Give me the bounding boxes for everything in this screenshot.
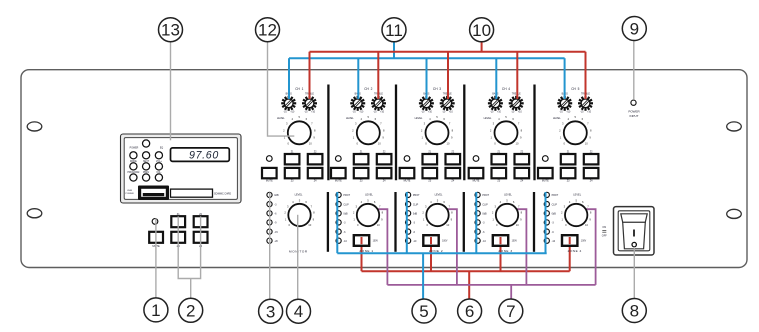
media module button row3 col3: [155, 174, 162, 181]
svg-text:MUTE: MUTE: [266, 180, 273, 183]
channel strip CH4: [469, 87, 529, 182]
svg-text:10: 10: [585, 223, 588, 227]
screw slot bottom-right: [727, 209, 742, 218]
media module button row1 col1: [130, 152, 137, 159]
svg-text:CLIP: CLIP: [343, 203, 349, 206]
svg-text:10: 10: [446, 223, 449, 227]
LCD display 97.60: [171, 148, 230, 162]
separator line x396 bottom: [394, 192, 396, 252]
svg-text:POWER: POWER: [125, 193, 134, 195]
zone 3 LEVEL knob: [492, 194, 523, 228]
svg-text:100V: 100V: [512, 241, 518, 243]
svg-text:MUTE: MUTE: [542, 180, 549, 183]
callout circle 10: [470, 18, 494, 42]
screw slot top-left: [27, 122, 42, 131]
svg-text:10: 10: [377, 223, 380, 227]
svg-text:6: 6: [465, 302, 474, 321]
callout line 8 to power switch: [633, 247, 635, 299]
wire blue bus (bass trimmers, callout 11): [289, 42, 565, 99]
svg-text:10: 10: [516, 223, 519, 227]
zone 4 LEVEL knob: [561, 194, 592, 228]
master button Z1: [171, 216, 185, 227]
master button Z2: [194, 216, 208, 227]
wire red bus (treble trimmers, callout 10): [310, 42, 586, 99]
media module button row1 col2: [143, 152, 150, 159]
media module button row3 col1: [130, 174, 137, 181]
svg-text:INPUT: INPUT: [630, 114, 639, 118]
power rocker switch: [614, 207, 655, 255]
zone 2 LED column: [406, 192, 421, 243]
callout circle 13: [159, 18, 183, 42]
svg-text:0dB: 0dB: [482, 213, 487, 216]
svg-text:LEVEL: LEVEL: [573, 194, 581, 197]
svg-text:8: 8: [630, 302, 639, 321]
svg-text:5: 5: [419, 302, 428, 321]
callout circle 8: [622, 299, 646, 323]
svg-text:10: 10: [472, 21, 491, 40]
label OFF: [602, 232, 607, 237]
callout line 12 to CH1 level knob: [268, 42, 295, 136]
channel strip CH5: [538, 87, 598, 182]
svg-text:LEVEL: LEVEL: [435, 194, 443, 197]
power indicator LED: [628, 100, 640, 118]
svg-text:MONITOR: MONITOR: [289, 249, 308, 253]
wire purple zone level bus (callout 7): [372, 209, 596, 299]
callout circle 6: [458, 299, 482, 323]
svg-text:LEVEL: LEVEL: [553, 117, 561, 120]
svg-text:2: 2: [186, 301, 195, 320]
callout line 2 to zone buttons: [178, 216, 200, 298]
svg-text:CH 3: CH 3: [433, 87, 441, 91]
zone 3 LED column: [475, 192, 490, 243]
svg-text:PROT: PROT: [552, 194, 559, 197]
svg-text:11: 11: [385, 21, 403, 40]
svg-text:PROT: PROT: [413, 194, 420, 197]
screw slot top-right: [727, 122, 742, 131]
rack panel faceplate: [21, 70, 747, 268]
callout circle 11: [382, 18, 406, 42]
svg-text:LEVEL: LEVEL: [277, 117, 285, 120]
svg-text:PROT: PROT: [482, 194, 489, 197]
master button Z3: [171, 232, 185, 243]
callout circle 3: [259, 299, 283, 323]
svg-text:LEVEL: LEVEL: [365, 194, 373, 197]
callout circle 1: [144, 298, 168, 322]
callout circle 4: [287, 299, 311, 323]
master MUTE button: [149, 232, 163, 243]
svg-text:100V: 100V: [373, 241, 379, 243]
callout line 3 to monitor LEDs: [269, 192, 271, 299]
callout line 9 to power LED: [633, 41, 635, 100]
zone 4 LED column: [544, 192, 559, 243]
zone 2 LEVEL knob: [422, 194, 453, 228]
monitor LEVEL knob: [284, 194, 315, 228]
callout circle 7: [499, 299, 523, 323]
media module button row3 col2: [143, 174, 150, 181]
callout line 13 to media module: [170, 42, 172, 141]
zone 1 100V button: [354, 235, 379, 246]
zone 2 100V button: [423, 235, 448, 246]
svg-text:1: 1: [151, 301, 160, 320]
svg-text:CH 5: CH 5: [571, 87, 579, 91]
channel strip CH2: [331, 87, 391, 182]
svg-text:7: 7: [506, 302, 515, 321]
separator line x464 top: [463, 85, 465, 181]
svg-text:4: 4: [294, 302, 303, 321]
master group LED: [152, 219, 158, 225]
svg-text:ZONE 4: ZONE 4: [568, 249, 582, 253]
USB port: [138, 186, 169, 201]
svg-text:10: 10: [309, 142, 312, 146]
separator line x534 bottom: [533, 192, 535, 252]
media module button row2 col3: [155, 163, 162, 170]
svg-text:MUTE: MUTE: [335, 180, 342, 183]
svg-text:0dB: 0dB: [343, 213, 348, 216]
wire blue zone LED bus (callout 5): [337, 192, 546, 299]
callout circle 5: [412, 299, 436, 323]
master button Z4: [194, 232, 208, 243]
separator line x396 top: [395, 85, 397, 181]
svg-text:10: 10: [447, 142, 450, 146]
svg-text:SD/MMC CARD: SD/MMC CARD: [214, 193, 231, 196]
media player module bezel: [121, 134, 242, 203]
svg-text:LEVEL: LEVEL: [295, 194, 303, 197]
svg-text:0dB: 0dB: [413, 213, 418, 216]
wire red zone button bus (callout 6): [362, 238, 570, 299]
svg-text:USB/: USB/: [127, 190, 132, 192]
svg-text:10: 10: [516, 142, 519, 146]
svg-text:12: 12: [258, 21, 277, 40]
svg-text:0dB: 0dB: [552, 213, 557, 216]
label ON: [602, 226, 606, 230]
callout circle 12: [256, 18, 280, 42]
media module button top: [143, 140, 150, 147]
svg-text:100V: 100V: [581, 241, 587, 243]
svg-text:CH 1: CH 1: [295, 87, 303, 91]
zone 3 100V button: [493, 235, 518, 246]
svg-text:10: 10: [585, 142, 588, 146]
svg-text:CH 2: CH 2: [364, 87, 372, 91]
svg-text:3: 3: [266, 302, 275, 321]
media module button row1 col3: [155, 152, 162, 159]
svg-text:10: 10: [308, 223, 311, 227]
svg-text:LEVEL: LEVEL: [504, 194, 512, 197]
zone 4 100V button: [562, 235, 587, 246]
svg-text:ON: ON: [602, 226, 606, 229]
channel strip CH3: [400, 87, 460, 182]
svg-text:POWER: POWER: [130, 147, 139, 149]
separator line x328 bottom: [327, 192, 329, 252]
svg-text:MUTE: MUTE: [473, 180, 480, 183]
svg-text:CLIP: CLIP: [413, 203, 419, 206]
callout circle 2: [179, 298, 203, 322]
svg-text:EQ: EQ: [160, 147, 164, 149]
svg-text:LEVEL: LEVEL: [346, 117, 354, 120]
SD card slot: [171, 189, 213, 197]
svg-text:CLIP: CLIP: [552, 203, 558, 206]
screw slot bottom-left: [27, 209, 42, 218]
svg-text:10: 10: [378, 142, 381, 146]
separator line x464 bottom: [463, 192, 465, 252]
media module button row2 col1: [130, 163, 137, 170]
svg-text:0dB: 0dB: [274, 194, 279, 197]
separator line x328 top: [327, 85, 329, 181]
zone 1 LEVEL knob: [353, 194, 384, 228]
svg-text:PROT: PROT: [343, 194, 350, 197]
separator line x534 top: [533, 85, 535, 181]
svg-text:9: 9: [630, 20, 639, 39]
svg-text:LEVEL: LEVEL: [484, 117, 492, 120]
media module button row2 col2: [143, 163, 150, 170]
svg-text:MUTE: MUTE: [404, 180, 411, 183]
svg-text:13: 13: [161, 21, 180, 40]
zone 1 LED column: [336, 192, 351, 243]
monitor LED column: [267, 192, 279, 243]
svg-text:CLIP: CLIP: [482, 203, 488, 206]
svg-text:CH 4: CH 4: [502, 87, 510, 91]
callout line 1 to master MUTE: [155, 219, 157, 298]
svg-text:97.60: 97.60: [189, 150, 219, 162]
svg-text:OFF: OFF: [602, 235, 607, 238]
svg-text:LEVEL: LEVEL: [415, 117, 423, 120]
channel strip CH1: [262, 87, 322, 182]
callout line 4 to monitor knob: [297, 215, 299, 299]
svg-text:100V: 100V: [442, 241, 448, 243]
callout circle 9: [622, 17, 646, 41]
